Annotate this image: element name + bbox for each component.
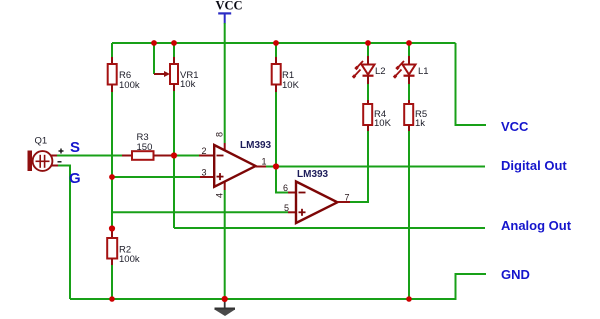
potentiometer VR1 bbox=[154, 43, 198, 91]
junction dot rail L2 bbox=[365, 40, 371, 46]
wire op1 pin4 column to bottom rail bbox=[224, 181, 226, 190]
svg-text:Analog Out: Analog Out bbox=[501, 218, 572, 233]
wire output node down to op2 pin6 bbox=[276, 167, 288, 193]
svg-text:6: 6 bbox=[283, 183, 288, 193]
junction dot rail R1 bbox=[273, 40, 279, 46]
resistor R4 bbox=[363, 100, 391, 131]
junction dot rail VR1 top bbox=[171, 40, 177, 46]
svg-text:5: 5 bbox=[284, 203, 289, 213]
svg-text:GND: GND bbox=[501, 267, 530, 282]
wire S node to op1 pin2 bbox=[174, 155, 199, 157]
wire L1 to R5 bbox=[408, 84, 410, 100]
svg-text:10K: 10K bbox=[374, 118, 392, 129]
wire R1 bottom to output node bbox=[275, 92, 277, 167]
svg-text:100k: 100k bbox=[119, 254, 140, 265]
svg-text:10K: 10K bbox=[282, 80, 300, 91]
wire R2 bottom to rail bbox=[111, 265, 113, 299]
LED L1 bbox=[394, 43, 429, 84]
ground symbol bbox=[215, 299, 236, 316]
wire op1 pin8 column bbox=[224, 43, 226, 143]
op-amp U2 LM393 bbox=[283, 169, 350, 223]
LED L2 bbox=[353, 43, 386, 84]
resistor R2 bbox=[107, 229, 140, 266]
wire Digital Out row bbox=[276, 166, 485, 168]
junction dot bottom rail gnd bbox=[222, 296, 228, 302]
svg-text:L1: L1 bbox=[418, 66, 429, 77]
wire R6 bottom to pin3 node and down to R2 bbox=[111, 92, 113, 229]
wire top VCC rail bbox=[112, 42, 456, 44]
junction dot R2 top bbox=[109, 225, 115, 231]
wire Analog Out row bbox=[174, 227, 485, 229]
resistor R3 bbox=[122, 132, 171, 160]
svg-text:2: 2 bbox=[202, 146, 207, 156]
svg-text:1: 1 bbox=[262, 157, 267, 167]
resistor R6 bbox=[108, 43, 140, 92]
svg-text:3: 3 bbox=[202, 168, 207, 178]
svg-text:S: S bbox=[70, 139, 80, 156]
svg-text:LM393: LM393 bbox=[240, 140, 272, 151]
svg-text:150: 150 bbox=[137, 142, 153, 153]
svg-text:VCC: VCC bbox=[501, 119, 529, 134]
wire mic G column bbox=[57, 166, 70, 300]
svg-text:Q1: Q1 bbox=[35, 136, 48, 147]
wire VR1 bottom through S node down to analog row bbox=[173, 91, 175, 228]
op-amp U1 LM393 bbox=[202, 132, 272, 198]
wire R5 bottom to bottom rail bbox=[408, 131, 410, 299]
junction dot pin3 node bbox=[109, 174, 115, 180]
svg-text:8: 8 bbox=[215, 132, 225, 137]
wire L2 to R4 bbox=[367, 84, 369, 100]
junction dot rail L1 bbox=[406, 40, 412, 46]
svg-text:Digital Out: Digital Out bbox=[501, 158, 567, 173]
svg-text:L2: L2 bbox=[375, 66, 386, 77]
svg-text:1k: 1k bbox=[415, 118, 425, 129]
wire pin5 row bbox=[112, 211, 288, 213]
svg-text:G: G bbox=[69, 170, 81, 187]
node VCC power symbol bbox=[216, 0, 243, 24]
svg-text:100k: 100k bbox=[119, 80, 140, 91]
junction dot bottom rail R5 bbox=[406, 296, 412, 302]
junction dot output node bbox=[273, 163, 279, 169]
svg-text:LM393: LM393 bbox=[297, 169, 329, 180]
wire R4 bottom down to op2 output row bbox=[350, 131, 368, 202]
wire VCC stem bbox=[224, 23, 226, 44]
svg-text:VCC: VCC bbox=[216, 0, 243, 13]
wire op2 output bbox=[337, 201, 350, 203]
wire op1 output to node bbox=[256, 166, 266, 168]
microphone Q1 bbox=[28, 136, 64, 172]
junction dot bottom rail R2 bbox=[109, 296, 115, 302]
junction dot S node bbox=[171, 152, 177, 158]
wire pin3 row bbox=[112, 176, 200, 178]
wire S row mic to R3 bbox=[57, 155, 122, 157]
junction dot rail VR1 wiper bbox=[151, 40, 157, 46]
wire right column rail to VCC out bbox=[456, 43, 487, 125]
svg-text:4: 4 bbox=[215, 193, 225, 198]
resistor R5 bbox=[404, 100, 427, 131]
resistor R1 bbox=[272, 43, 300, 92]
svg-text:10k: 10k bbox=[180, 79, 196, 90]
wire GND out to bottom rail bbox=[70, 274, 486, 299]
